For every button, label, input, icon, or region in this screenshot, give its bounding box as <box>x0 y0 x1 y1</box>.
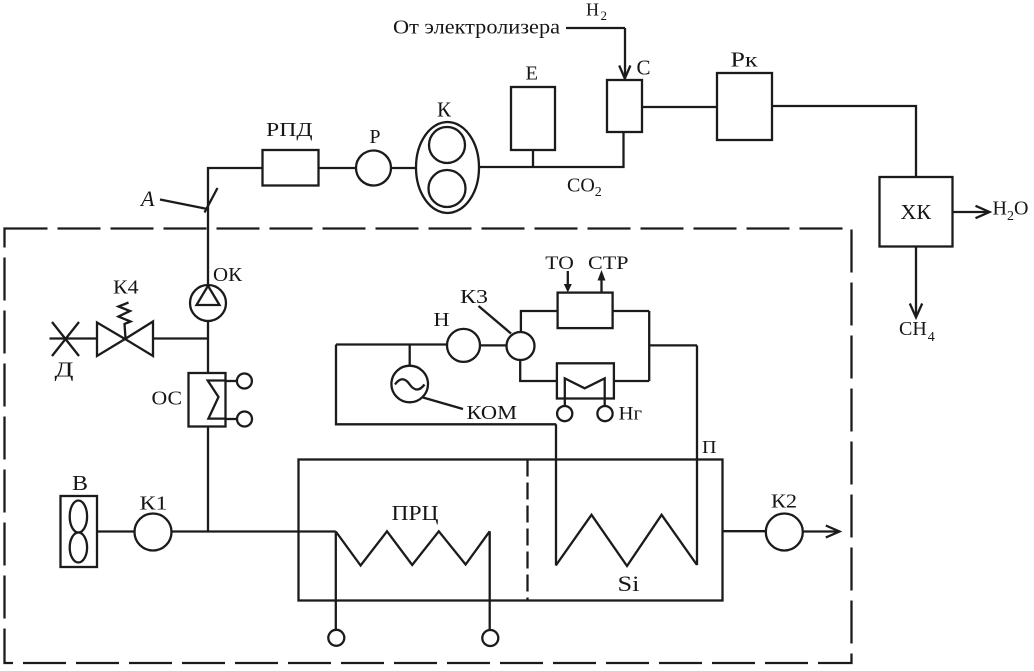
КОМ pointer line <box>423 398 463 410</box>
node A pointer line <box>160 200 208 210</box>
OC upper port stem and circle <box>226 380 238 382</box>
heat exchanger ОС <box>189 373 226 427</box>
svg-text:ХК: ХК <box>901 200 933 224</box>
wire: П vertical into Si <box>696 345 698 565</box>
M right terminal stem <box>604 399 606 407</box>
wire: OK to OC <box>207 321 209 373</box>
svg-text:H2: H2 <box>586 0 607 23</box>
svg-text:Si: Si <box>618 571 640 596</box>
drain symbol Д (crossed) <box>50 322 98 356</box>
wire: H2 feed horizontal <box>566 27 625 29</box>
svg-text:Е: Е <box>526 63 539 85</box>
dashed boundary box <box>5 229 852 664</box>
PRC left terminal stem <box>335 532 337 630</box>
wire: K1 to PRC box (junction with riser) <box>172 530 299 532</box>
svg-text:ОК: ОК <box>213 264 243 286</box>
wire: C to Rk <box>642 106 717 108</box>
wire: M box to rejoin <box>614 380 649 382</box>
wire: Н to КЗ <box>480 344 507 346</box>
M left terminal circle <box>557 406 572 421</box>
svg-text:ОС: ОС <box>152 388 183 410</box>
wire: branch rejoin vertical <box>648 311 650 381</box>
wire: E stem down <box>532 150 534 167</box>
svg-text:С: С <box>637 56 651 80</box>
M symbol <box>565 378 605 398</box>
svg-text:В: В <box>72 471 88 495</box>
compressor КОМ (circle with sine) <box>391 366 428 403</box>
wire: output to K2 <box>723 530 766 532</box>
svg-text:К2: К2 <box>771 491 797 513</box>
wire: TO box to rejoin <box>613 310 650 312</box>
gauge Р (circle) <box>356 151 391 186</box>
svg-text:Нг: Нг <box>619 404 643 425</box>
wire: loop top to Н <box>336 343 447 345</box>
block Е (receiver) <box>511 87 555 150</box>
wire: B to K1 <box>97 530 135 532</box>
OC lower port stem and circle <box>226 418 238 420</box>
wire: XK to H2O arrow <box>953 211 989 213</box>
svg-text:К4: К4 <box>113 277 139 299</box>
dashed divider <box>526 460 528 601</box>
svg-text:КОМ: КОМ <box>467 402 518 424</box>
svg-text:Рк: Рк <box>731 48 759 72</box>
svg-text:РПД: РПД <box>266 119 313 141</box>
svg-text:К: К <box>437 98 452 122</box>
svg-text:К3: К3 <box>460 286 488 308</box>
wire: rejoin to П <box>649 344 697 346</box>
svg-text:СТР: СТР <box>588 253 629 274</box>
block ПРЦ/Si (main apparatus) <box>299 460 723 601</box>
heater ПРЦ zigzag <box>336 531 490 565</box>
heater Si zigzag <box>556 515 697 566</box>
svg-text:К1: К1 <box>140 493 168 515</box>
arrow into TO box <box>567 271 569 285</box>
svg-text:Н: Н <box>434 309 450 331</box>
svg-text:А: А <box>139 186 155 211</box>
block Рк (reactor) <box>717 73 772 140</box>
svg-text:ТО: ТО <box>545 253 574 274</box>
КЗ pointer line <box>479 306 512 334</box>
wire: КЗ lower branch <box>520 359 557 381</box>
arrowhead output <box>826 526 840 538</box>
valve К1 (circle) <box>135 514 172 551</box>
compressor К (ellipse with two circles) <box>416 122 479 213</box>
svg-text:От электролизера: От электролизера <box>393 17 560 39</box>
PRC right terminal stem <box>489 531 491 630</box>
wire: K4 to riser <box>153 337 208 339</box>
wire: КЗ upper branch <box>521 311 558 333</box>
wire: loop down into Si <box>555 424 557 565</box>
svg-text:H2О: H2О <box>993 198 1029 225</box>
fan В (box with two ellipses) <box>61 496 98 567</box>
arrowhead H2O <box>976 206 990 218</box>
pump Н (circle) <box>447 329 480 362</box>
PRC right terminal circle <box>482 630 498 646</box>
svg-text:Д: Д <box>55 358 74 382</box>
wire: РПД to Р <box>319 167 357 169</box>
svg-text:СН4: СН4 <box>899 318 935 345</box>
svg-text:ПРЦ: ПРЦ <box>392 501 439 525</box>
svg-text:СО2: СО2 <box>567 175 602 201</box>
check valve ОК <box>190 285 226 321</box>
arrow out of TO box <box>600 279 602 292</box>
wire: P to K <box>391 167 416 169</box>
PRC left terminal circle <box>328 630 344 646</box>
valve К4 (bowtie) <box>97 322 153 357</box>
wire: K2 output arrow <box>803 530 838 532</box>
svg-text:Р: Р <box>370 126 381 148</box>
wire: CO2 line from K to C <box>480 132 624 167</box>
wire: H2 feed vertical into C <box>624 28 626 78</box>
block C (mixer) <box>607 80 642 132</box>
valve К4 spring <box>119 303 131 339</box>
wire: Rk to XK corner <box>772 106 916 177</box>
wire: OC down to main line <box>207 427 209 532</box>
valve К2 (circle) <box>766 514 803 551</box>
wire: РПД left and down main riser <box>208 168 263 285</box>
block М (humidifier) <box>557 363 614 398</box>
valve КЗ (circle) <box>507 332 535 360</box>
block ХК (condenser) <box>880 177 953 247</box>
block ТО/СТР (thermostat) <box>558 293 613 329</box>
block РПД (pressure regulator) <box>263 150 319 186</box>
node A tick mark <box>205 188 218 213</box>
wire: XK down to CH4 arrow <box>915 247 917 317</box>
arrowhead into mixer C <box>619 66 630 79</box>
compressor КОМ stem <box>409 345 411 367</box>
M left terminal stem <box>564 399 566 407</box>
wire: into PRC heater <box>299 530 336 532</box>
arrowhead CH4 <box>910 304 922 318</box>
M right terminal circle <box>597 406 612 421</box>
svg-text:П: П <box>702 437 717 457</box>
wire: loop left vertical and bottom <box>336 345 556 425</box>
